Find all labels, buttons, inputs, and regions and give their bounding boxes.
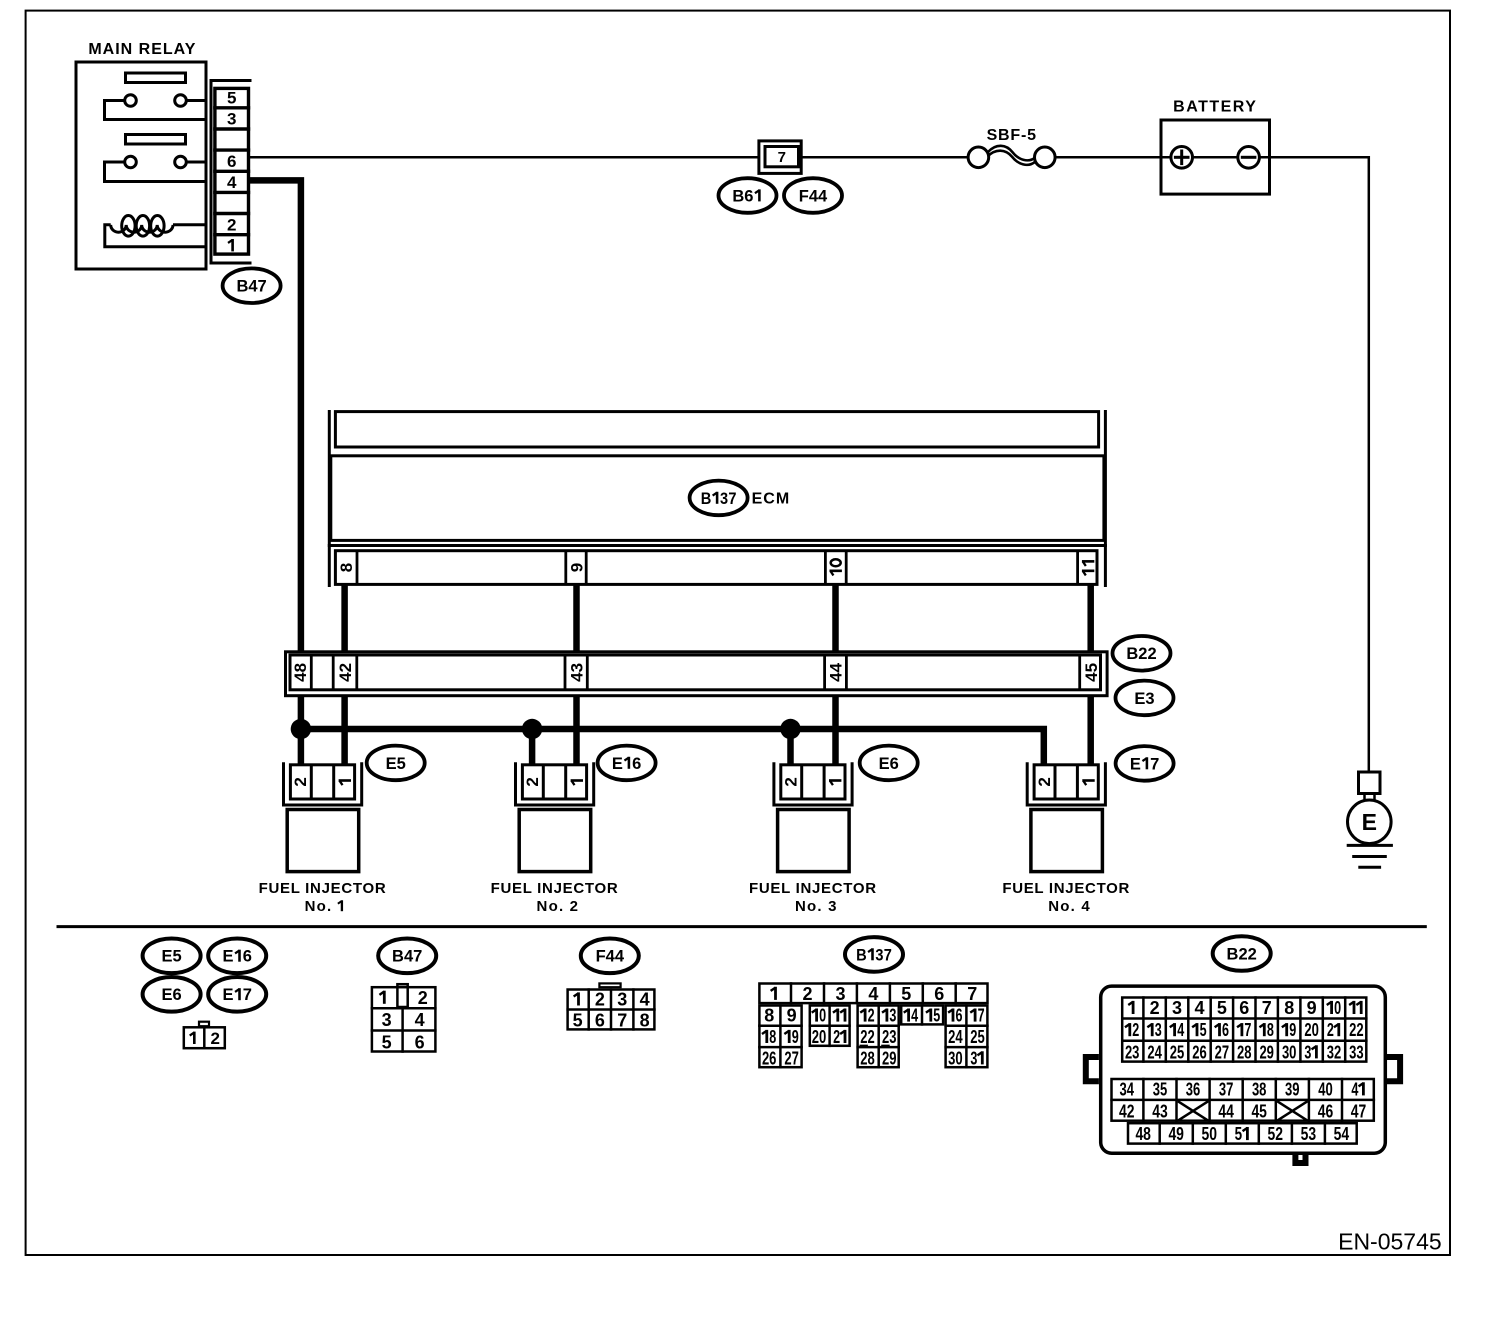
- B137 block 10/11/20/21: [810, 1006, 850, 1046]
- relay coil: [105, 225, 206, 247]
- fuel injector No.3 connector outline: [774, 762, 852, 805]
- svg-text:3: 3: [382, 1010, 392, 1030]
- svg-text:0: 0: [1334, 998, 1341, 1018]
- relay contact 1 circles: [125, 95, 137, 107]
- svg-text:42: 42: [1119, 1102, 1135, 1122]
- svg-text:B: B: [856, 946, 867, 964]
- connector label E5: [367, 746, 425, 781]
- fuel injector No.2 body: [519, 810, 591, 872]
- connector row B22/E3 cells: [290, 655, 1101, 690]
- svg-text:6: 6: [595, 1011, 605, 1031]
- svg-text:3: 3: [835, 984, 845, 1004]
- svg-text:35: 35: [1153, 1079, 1168, 1099]
- svg-text:No. 3: No. 3: [795, 898, 838, 915]
- svg-text:2: 2: [227, 215, 236, 234]
- legend E-connector pinout 1 2: [199, 1022, 209, 1026]
- injector No.2 pin 1: [571, 781, 583, 786]
- svg-text:8: 8: [1267, 1020, 1274, 1040]
- svg-text:4: 4: [1351, 1079, 1358, 1099]
- svg-text:48: 48: [291, 663, 310, 682]
- svg-text:3: 3: [970, 1048, 977, 1068]
- svg-text:54: 54: [1334, 1124, 1350, 1144]
- svg-text:No.: No.: [305, 898, 333, 915]
- svg-text:27: 27: [1215, 1042, 1230, 1062]
- svg-text:F44: F44: [596, 948, 625, 966]
- svg-text:42: 42: [336, 663, 355, 682]
- svg-text:FUEL INJECTOR: FUEL INJECTOR: [259, 880, 387, 897]
- svg-text:28: 28: [1237, 1042, 1252, 1062]
- ground symbol bars: [1347, 844, 1393, 847]
- svg-text:27: 27: [784, 1048, 799, 1068]
- fuel injector No.1 body: [287, 810, 359, 872]
- ECM top strip: [335, 412, 1098, 447]
- svg-text:FUEL INJECTOR: FUEL INJECTOR: [491, 880, 619, 897]
- svg-text:E: E: [612, 755, 623, 773]
- svg-text:3: 3: [1304, 1042, 1311, 1062]
- svg-text:B: B: [732, 187, 744, 205]
- legend connector label E5: [143, 939, 201, 974]
- svg-text:9: 9: [567, 563, 586, 572]
- svg-text:30: 30: [1282, 1042, 1297, 1062]
- svg-text:43: 43: [567, 663, 586, 682]
- fuel injector No.4 connector cells: [1034, 765, 1098, 799]
- legend connector label F44: [581, 939, 639, 974]
- connector label E16: [598, 746, 656, 781]
- svg-text:20: 20: [1304, 1020, 1319, 1040]
- wire fuse to SBF-5: [801, 156, 979, 159]
- ECM outer sides: [328, 410, 331, 587]
- svg-text:9: 9: [1307, 998, 1317, 1018]
- svg-text:7: 7: [884, 946, 892, 964]
- svg-text:EN-05745: EN-05745: [1338, 1229, 1442, 1255]
- svg-text:9: 9: [792, 1027, 799, 1047]
- svg-text:B22: B22: [1126, 645, 1156, 663]
- ECM connector row: [328, 544, 1107, 547]
- svg-text:46: 46: [1318, 1102, 1334, 1122]
- svg-text:4: 4: [415, 1010, 425, 1030]
- svg-text:45: 45: [1082, 663, 1101, 682]
- svg-text:5: 5: [382, 1032, 392, 1052]
- svg-text:44: 44: [1218, 1102, 1234, 1122]
- svg-text:BATTERY: BATTERY: [1173, 99, 1257, 116]
- fuel injector No.4 connector outline: [1027, 762, 1105, 805]
- svg-text:7: 7: [1150, 755, 1159, 773]
- svg-text:2: 2: [291, 777, 310, 786]
- bus wire: [301, 729, 1044, 764]
- relay contact bar 2: [126, 135, 186, 145]
- svg-text:24: 24: [948, 1027, 963, 1047]
- legend connector label B47: [378, 939, 436, 974]
- svg-text:32: 32: [1327, 1042, 1342, 1062]
- connector B47 outline: [211, 81, 252, 264]
- svg-text:6: 6: [744, 187, 753, 205]
- injector No.4 pin 1: [1082, 781, 1094, 786]
- svg-text:26: 26: [762, 1048, 777, 1068]
- legend connector label E17: [208, 977, 266, 1012]
- ECM main box: [331, 456, 1104, 541]
- svg-text:8: 8: [764, 1006, 774, 1026]
- svg-text:E: E: [222, 948, 233, 966]
- svg-text:48: 48: [1135, 1124, 1151, 1144]
- legend B47 pinout: [397, 984, 407, 1007]
- svg-text:No. 4: No. 4: [1048, 898, 1091, 915]
- svg-text:52: 52: [1268, 1124, 1284, 1144]
- legend B22 housing: [1101, 986, 1386, 1153]
- svg-text:B22: B22: [1227, 945, 1257, 963]
- ground connector square: [1359, 772, 1381, 794]
- svg-text:E6: E6: [162, 986, 182, 1004]
- fuel injector No.2 connector outline: [516, 762, 594, 805]
- section divider line: [57, 925, 1427, 928]
- wire contact1 left lead: [105, 101, 207, 120]
- wire ECM pin8: [341, 586, 348, 652]
- svg-text:4: 4: [1177, 1020, 1184, 1040]
- legend connector label E6: [143, 977, 201, 1012]
- svg-text:43: 43: [1152, 1102, 1168, 1122]
- svg-text:6: 6: [956, 1006, 963, 1026]
- svg-text:E5: E5: [386, 755, 406, 773]
- svg-text:45: 45: [1251, 1102, 1267, 1122]
- svg-text:53: 53: [1301, 1124, 1317, 1144]
- svg-text:FUEL INJECTOR: FUEL INJECTOR: [749, 880, 877, 897]
- fuel injector No.1 connector outline: [284, 762, 362, 805]
- svg-text:B: B: [701, 490, 712, 508]
- svg-text:0: 0: [819, 1006, 826, 1026]
- fuel injector No.3 body: [778, 810, 850, 872]
- svg-text:4: 4: [868, 984, 878, 1004]
- wire pin6 to fuse: [250, 156, 759, 159]
- svg-text:ECM: ECM: [752, 491, 791, 508]
- junction node 1: [291, 719, 311, 739]
- connector label E6: [860, 746, 918, 781]
- svg-text:28: 28: [860, 1048, 875, 1068]
- B22 crossed-out cell under 36: [1178, 1101, 1209, 1121]
- svg-text:2: 2: [833, 1027, 840, 1047]
- svg-text:E5: E5: [162, 948, 182, 966]
- connector label B47: [223, 268, 281, 303]
- svg-text:2: 2: [418, 988, 428, 1008]
- wire row to injector3 pin1: [832, 696, 839, 764]
- battery plus terminal: [1171, 147, 1193, 169]
- svg-text:22: 22: [860, 1027, 875, 1047]
- connector label E3: [1116, 681, 1174, 716]
- svg-text:9: 9: [787, 1006, 797, 1026]
- svg-text:2: 2: [1150, 998, 1160, 1018]
- svg-text:6: 6: [415, 1032, 425, 1052]
- svg-text:3: 3: [617, 990, 627, 1010]
- svg-text:B47: B47: [236, 278, 266, 296]
- connector label B137 ECM: [690, 481, 748, 516]
- junction node 3: [780, 719, 800, 739]
- svg-text:4: 4: [1194, 998, 1204, 1018]
- svg-text:7: 7: [617, 1011, 627, 1031]
- wire contact1 to edge: [186, 99, 206, 102]
- svg-text:2: 2: [1327, 1020, 1334, 1040]
- B22 left tab: [1086, 1057, 1099, 1081]
- svg-text:25: 25: [970, 1027, 985, 1047]
- svg-text:5: 5: [933, 1006, 940, 1026]
- svg-text:23: 23: [1125, 1042, 1140, 1062]
- fuel injector No.4 body: [1031, 810, 1103, 872]
- svg-text:6: 6: [934, 984, 944, 1004]
- svg-text:5: 5: [901, 984, 911, 1004]
- drop to injector1 pin2: [298, 729, 305, 764]
- svg-text:5: 5: [573, 1011, 583, 1031]
- B137 block 12/13/22/23/28/29: [858, 1006, 899, 1068]
- svg-text:6: 6: [632, 755, 641, 773]
- svg-text:3: 3: [875, 946, 883, 964]
- svg-text:36: 36: [1186, 1079, 1201, 1099]
- svg-text:29: 29: [1259, 1042, 1274, 1062]
- wire ECM pin9: [573, 586, 580, 652]
- wire row to injector1 pin1: [341, 696, 348, 764]
- fuse 7: [759, 141, 801, 174]
- legend connector label B22: [1213, 936, 1271, 971]
- svg-text:2: 2: [523, 777, 542, 786]
- svg-text:22: 22: [1349, 1020, 1364, 1040]
- svg-text:2: 2: [802, 984, 812, 1004]
- svg-text:30: 30: [948, 1048, 963, 1068]
- svg-text:20: 20: [812, 1027, 827, 1047]
- wire SBF-5 to battery to ground corner: [1044, 157, 1369, 772]
- legend F44 pinout: [599, 983, 620, 987]
- svg-text:6: 6: [227, 152, 236, 171]
- B22 bottom tab: [1295, 1153, 1305, 1163]
- svg-text:FUEL INJECTOR: FUEL INJECTOR: [1002, 880, 1130, 897]
- svg-text:7: 7: [243, 986, 252, 1004]
- B22 bottom row 48-54: [1128, 1123, 1357, 1143]
- B137 block 8/9/18/19/26/27: [759, 1006, 801, 1068]
- svg-text:25: 25: [1170, 1042, 1185, 1062]
- svg-text:2: 2: [595, 990, 605, 1010]
- svg-text:8: 8: [769, 1027, 776, 1047]
- svg-text:E: E: [1362, 809, 1377, 835]
- svg-text:4: 4: [911, 1006, 918, 1026]
- svg-text:8: 8: [1284, 998, 1294, 1018]
- wire pin48 to bus: [298, 696, 305, 729]
- wire contact2 left lead: [105, 162, 207, 182]
- svg-text:E: E: [1130, 755, 1141, 773]
- wire ECM pin10: [832, 586, 839, 652]
- legend B137 pinout row1: [759, 984, 987, 1004]
- svg-text:2: 2: [868, 1006, 875, 1026]
- svg-text:44: 44: [827, 662, 846, 681]
- svg-text:E6: E6: [879, 755, 899, 773]
- svg-text:5: 5: [1200, 1020, 1207, 1040]
- svg-text:E3: E3: [1134, 690, 1154, 708]
- svg-text:8: 8: [640, 1011, 650, 1031]
- connector label B61: [719, 178, 777, 213]
- svg-text:3: 3: [227, 110, 236, 129]
- B22 crossed-out cell under 39: [1277, 1101, 1308, 1121]
- svg-text:7: 7: [728, 490, 736, 508]
- svg-text:5: 5: [1217, 998, 1227, 1018]
- wire ECM pin11: [1087, 586, 1094, 652]
- B22 middle grid 34-47: [1112, 1079, 1374, 1121]
- wire contact2 to edge: [186, 161, 206, 164]
- svg-text:B47: B47: [392, 948, 422, 966]
- connector label E17: [1116, 746, 1174, 781]
- wire row to injector4 pin1: [1087, 696, 1094, 764]
- B137 block 14/15: [901, 1006, 943, 1025]
- svg-text:E: E: [222, 986, 233, 1004]
- ground circle E: [1348, 800, 1392, 844]
- B22 right tab: [1387, 1057, 1400, 1081]
- legend connector label B137: [845, 937, 903, 972]
- svg-text:38: 38: [1252, 1079, 1267, 1099]
- connector B47 pin cells: [215, 88, 249, 254]
- svg-text:8: 8: [337, 563, 356, 572]
- svg-text:26: 26: [1192, 1042, 1207, 1062]
- wire relay pin4 (thick): [250, 180, 301, 650]
- svg-text:47: 47: [1351, 1102, 1367, 1122]
- fuel injector No.3 connector cells: [781, 765, 845, 799]
- svg-text:2: 2: [1132, 1020, 1139, 1040]
- svg-text:40: 40: [1318, 1079, 1333, 1099]
- svg-text:9: 9: [1289, 1020, 1296, 1040]
- svg-text:5: 5: [1235, 1124, 1243, 1144]
- wire row to injector2 pin1: [573, 696, 580, 764]
- legend connector label E16: [208, 939, 266, 974]
- svg-text:49: 49: [1168, 1124, 1184, 1144]
- svg-text:3: 3: [720, 490, 728, 508]
- svg-text:No. 2: No. 2: [537, 898, 580, 915]
- B137 block 16/17/24/25/30/31: [946, 1006, 988, 1068]
- connector label B22: [1113, 636, 1171, 671]
- svg-text:SBF-5: SBF-5: [987, 127, 1037, 144]
- svg-text:6: 6: [243, 948, 252, 966]
- svg-text:34: 34: [1120, 1079, 1135, 1099]
- svg-text:7: 7: [778, 149, 786, 166]
- svg-text:5: 5: [227, 89, 236, 108]
- fuel injector No.2 connector cells: [522, 765, 586, 799]
- svg-text:33: 33: [1349, 1042, 1364, 1062]
- svg-text:39: 39: [1285, 1079, 1300, 1099]
- svg-text:50: 50: [1202, 1124, 1218, 1144]
- B22 top grid 1-33: [1122, 998, 1366, 1062]
- svg-text:2: 2: [210, 1029, 219, 1048]
- svg-text:3: 3: [889, 1006, 896, 1026]
- connector row B22/E3 outer: [286, 652, 1108, 696]
- drop to injector3 pin2: [787, 729, 794, 764]
- svg-text:7: 7: [1262, 998, 1272, 1018]
- svg-text:2: 2: [1035, 777, 1054, 786]
- svg-text:24: 24: [1147, 1042, 1162, 1062]
- svg-text:6: 6: [1222, 1020, 1229, 1040]
- injector No.3 pin 1: [829, 781, 841, 786]
- connector label F44: [784, 178, 842, 213]
- svg-text:2: 2: [782, 777, 801, 786]
- svg-text:29: 29: [882, 1048, 897, 1068]
- svg-text:7: 7: [1244, 1020, 1251, 1040]
- injector No.1 pin 1: [339, 781, 351, 786]
- svg-text:23: 23: [882, 1027, 897, 1047]
- svg-text:4: 4: [640, 990, 650, 1010]
- battery minus terminal: [1238, 147, 1260, 169]
- relay contact 2 circles: [125, 156, 137, 168]
- relay contact bar 1: [126, 73, 186, 83]
- fuel injector No.1 connector cells: [290, 765, 354, 799]
- svg-text:3: 3: [1172, 998, 1182, 1018]
- svg-text:6: 6: [1239, 998, 1249, 1018]
- junction node 2: [522, 719, 542, 739]
- svg-text:37: 37: [1219, 1079, 1234, 1099]
- svg-text:7: 7: [978, 1006, 985, 1026]
- svg-text:F44: F44: [799, 187, 828, 205]
- svg-text:3: 3: [1155, 1020, 1162, 1040]
- svg-text:7: 7: [967, 984, 977, 1004]
- drop to injector2 pin2: [529, 729, 536, 764]
- svg-text:4: 4: [227, 173, 237, 192]
- svg-text:MAIN RELAY: MAIN RELAY: [88, 41, 196, 58]
